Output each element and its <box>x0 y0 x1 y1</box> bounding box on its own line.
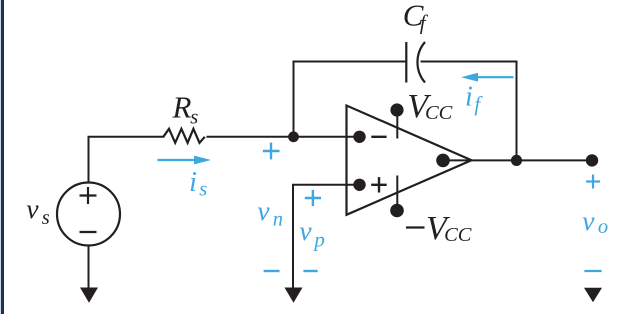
current arrow if <box>478 76 514 78</box>
ground arrow below vp wire <box>285 288 303 303</box>
pin inverting input <box>353 131 365 143</box>
pin VCC <box>390 103 403 116</box>
node B output junction dot <box>511 155 522 166</box>
voltage source vs <box>57 183 120 246</box>
svg-text:i: i <box>189 167 197 198</box>
wire capacitor to right corner down to output node <box>421 62 517 161</box>
svg-text:CC: CC <box>444 224 472 246</box>
svg-text:s: s <box>199 179 207 201</box>
node A junction dot <box>288 131 299 142</box>
svg-text:s: s <box>42 207 50 229</box>
capacitor C1 <box>406 42 425 83</box>
svg-text:v: v <box>299 215 312 246</box>
resistor R1 zigzag <box>163 129 205 143</box>
svg-text:v: v <box>26 193 39 224</box>
wire source bottom stem <box>88 246 90 290</box>
label vo plus minus <box>584 175 601 272</box>
svg-text:i: i <box>465 82 473 113</box>
pin output <box>436 154 450 168</box>
wire resistor to inverting input <box>207 136 360 138</box>
svg-text:v: v <box>257 195 270 226</box>
svg-text:R: R <box>172 90 192 125</box>
ground arrow below source <box>80 288 98 303</box>
svg-text:v: v <box>582 205 595 236</box>
label vp <box>303 190 321 271</box>
op-amp U1 triangle <box>347 106 472 215</box>
current arrow is <box>158 159 197 161</box>
svg-text:o: o <box>598 216 608 238</box>
svg-text:p: p <box>312 228 325 252</box>
wire feedback left: node A up and right to capacitor <box>294 62 407 137</box>
wire output to terminal <box>443 159 592 161</box>
svg-text:CC: CC <box>425 102 453 124</box>
ground arrowhead at output terminal <box>584 288 602 303</box>
pin -VCC <box>390 204 404 218</box>
wire from source top to resistor <box>89 137 165 183</box>
label vn <box>263 143 280 271</box>
svg-text:s: s <box>190 106 198 128</box>
wire vp: noninverting input left and down <box>293 185 360 289</box>
svg-text:n: n <box>273 209 283 231</box>
label -VCC <box>406 226 425 228</box>
pin noninverting input <box>353 179 365 191</box>
terminal vo dot <box>586 154 598 166</box>
